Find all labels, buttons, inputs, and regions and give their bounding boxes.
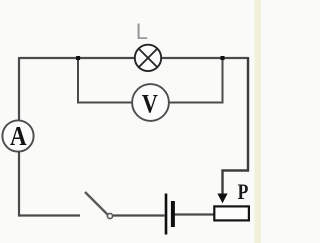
wire: bottom middle segment (switch to battery) — [113, 214, 165, 216]
wire: voltmeter branch right (to junction up) — [169, 58, 223, 103]
battery long plate (left) — [165, 194, 168, 235]
voltmeter letter V — [142, 91, 158, 119]
junction node left — [76, 56, 80, 60]
switch S blade — [85, 192, 109, 216]
svg-text:A: A — [10, 122, 27, 151]
battery short thick plate (right) — [171, 201, 175, 227]
svg-text:P: P — [238, 180, 249, 204]
rheostat slider arrow head — [217, 194, 227, 204]
rheostat box P — [214, 206, 249, 220]
label P — [238, 180, 249, 204]
lamp L circle — [135, 45, 161, 71]
right edge tint strip — [255, 0, 262, 243]
wire: voltmeter branch left (from junction down and right) — [78, 58, 132, 103]
junction node right — [221, 56, 225, 60]
wire: battery to rheostat — [174, 213, 214, 215]
switch pivot circle — [107, 213, 112, 218]
voltmeter V circle — [132, 84, 169, 121]
svg-text:V: V — [142, 91, 158, 119]
ammeter A circle — [2, 120, 33, 151]
wire: left vertical upper — [18, 57, 20, 121]
wire: top right segment — [161, 57, 248, 59]
wire: right vertical + step to arrow — [223, 57, 249, 195]
svg-text:L: L — [136, 19, 148, 44]
lamp X diagonals — [139, 49, 158, 68]
wire: bottom left segment — [18, 214, 80, 216]
wire: top left segment — [19, 57, 135, 59]
wire: left vertical lower — [18, 152, 20, 216]
ammeter letter A — [10, 122, 27, 151]
